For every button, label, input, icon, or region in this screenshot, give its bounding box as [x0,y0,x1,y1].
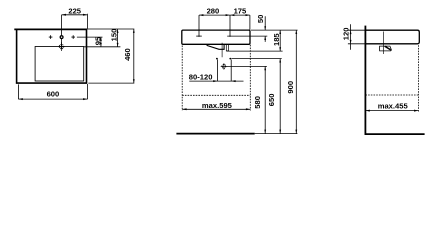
diamond tick left [196,35,202,37]
outlet cross [221,63,227,69]
dimension 460 line [133,29,135,83]
dimension 580 line [264,66,266,133]
svg-text:95: 95 [94,36,103,45]
extension line slab top right [251,29,298,31]
hole mark diamond left [198,35,201,37]
svg-text:185: 185 [272,33,281,46]
dimension max.595 line [182,108,250,110]
dimension 900 line [295,30,297,133]
svg-text:175: 175 [234,6,247,15]
dimension 150 line [117,29,119,47]
right optional tap hole cross [71,35,75,39]
extension lines 120 [348,30,366,44]
dimension 460 arrows [133,29,135,83]
left optional tap hole cross [49,35,53,39]
dimension 80-120 arrows [213,80,235,82]
front view inner bowl outline [35,47,84,82]
tap hole centerline vertical [61,15,63,49]
svg-text:280: 280 [207,6,220,15]
dimension 580 arrows [264,66,266,133]
front view outer outline [17,29,87,83]
extension vertical 175 right [249,15,251,30]
floor line middle thin [255,133,298,135]
floor line right view [365,133,425,135]
dashed vertical max.455 [417,45,419,111]
drain stub [226,44,228,51]
svg-text:580: 580 [253,96,262,109]
extension line bowl top right [84,46,121,48]
bowl underside profile [207,44,224,49]
extension vertical 280-175 middle [229,15,231,35]
tap hole centerline horizontal [77,36,103,38]
wall line [364,26,366,135]
outlet leader line [227,65,267,67]
dimension 80-120 line [189,80,243,82]
svg-text:650: 650 [267,94,276,107]
svg-text:max.595: max.595 [202,101,233,110]
svg-text:50: 50 [256,15,265,23]
dimension 185 arrows [279,30,281,51]
outlet dashed circle [222,64,226,68]
dimension 185 line [279,30,281,51]
dimension max.455 arrows [365,110,418,112]
dimension 280 175 arrows [199,14,250,16]
dimension 600 line [18,98,87,100]
reference dot leader line [232,58,282,60]
reference dot right [229,58,231,60]
dimension 95 line [100,37,102,47]
dimension max.595 arrows [182,108,250,110]
dimension 95 arrows [100,37,102,47]
svg-text:225: 225 [68,6,81,15]
hole mark diamond right [229,35,232,37]
svg-text:900: 900 [286,81,295,94]
svg-text:150: 150 [109,29,118,42]
dimension 650 line [279,59,281,134]
dimension 900 arrows [295,30,297,133]
cabinet dashed outline [182,45,250,111]
side view slab outline [365,30,419,44]
extension vertical 280 left [198,15,200,35]
drain position cross [59,42,65,51]
drain centerline [221,43,223,57]
dimension 280 175 line [199,14,250,16]
side view centerline [382,32,384,55]
dimension 650 arrows [279,59,281,134]
reference dot left [216,58,218,60]
dimension 150 arrows [117,29,119,47]
extension line basin bottom right [88,82,134,84]
dimension 120 lines [350,24,352,50]
dimension 50 arrows [264,26,266,40]
side section slab outline [182,30,250,44]
floor line middle thick [176,133,254,135]
extension line 185 bottom [227,50,283,52]
extension line top edge right [87,28,135,30]
80-120 extension verticals [218,60,232,82]
dimension max.455 line [365,110,418,112]
svg-text:max.455: max.455 [378,101,409,110]
tap hole circle [60,36,63,39]
dimension 600 arrows [18,98,87,100]
svg-text:460: 460 [123,48,132,61]
svg-text:80-120: 80-120 [189,72,213,81]
dimension 225 arrows [62,14,88,16]
drain position dashed circle [59,44,64,49]
dimension 225 line [62,14,88,16]
svg-text:600: 600 [47,89,60,98]
dashed horizontal max.455 [365,94,418,96]
side view bowl detail [380,46,392,51]
hole level line to 50 dim [227,35,267,37]
dimension 50 lines [264,16,266,42]
dimension 120 arrows [350,30,352,44]
svg-text:120: 120 [341,28,350,41]
